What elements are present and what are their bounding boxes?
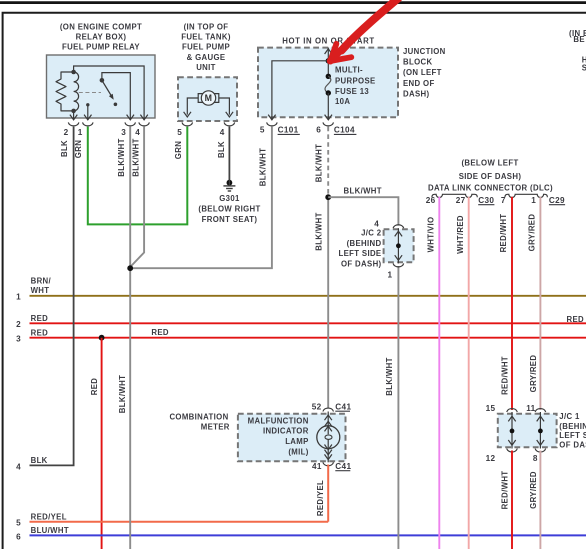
svg-text:(BELOW RIGHT: (BELOW RIGHT <box>198 205 260 214</box>
svg-text:RED/WHT: RED/WHT <box>501 356 510 395</box>
junction dot BLK/WHT branch <box>325 194 331 200</box>
svg-text:C29: C29 <box>549 196 565 205</box>
svg-text:& GAUGE: & GAUGE <box>187 53 226 62</box>
svg-text:GRN: GRN <box>174 141 183 159</box>
fuel pump motor M <box>201 91 215 105</box>
wires below J/C 1 <box>511 451 513 549</box>
svg-text:LEFT SIDE: LEFT SIDE <box>559 431 586 440</box>
wire BLK/WHT from junction block C101 <box>130 127 272 269</box>
svg-text:RED: RED <box>31 314 49 323</box>
node 4 BLK stub <box>30 464 75 466</box>
relay switch <box>100 78 105 83</box>
wire GRN relay pin 1 to fuel pump pin 5 <box>88 127 188 225</box>
svg-text:OF DASH): OF DASH) <box>341 259 382 268</box>
wire GRY/RED from DLC 1 <box>539 197 541 410</box>
fuel pump leads <box>187 98 198 115</box>
wire RED vertical <box>101 338 103 549</box>
node 2 RED bus <box>30 322 586 324</box>
DLC connector bracket pins 26-27 <box>432 194 477 197</box>
fuel pump relay box <box>47 55 156 118</box>
svg-text:COMBINATION: COMBINATION <box>169 413 228 422</box>
combination meter box <box>238 414 346 462</box>
svg-text:8: 8 <box>533 454 538 463</box>
svg-text:GRY/RED: GRY/RED <box>527 214 536 252</box>
svg-text:5: 5 <box>177 128 182 137</box>
svg-text:RED/YEL: RED/YEL <box>31 512 67 521</box>
svg-text:BLK/WHT: BLK/WHT <box>258 148 267 186</box>
svg-text:1: 1 <box>78 128 83 137</box>
svg-text:WHT: WHT <box>31 286 50 295</box>
node 1 BRN/WHT bus <box>30 295 586 297</box>
svg-text:10A: 10A <box>335 97 350 106</box>
svg-text:1: 1 <box>16 293 21 302</box>
junction on RED bus <box>99 335 105 341</box>
branch to C101 <box>272 61 328 120</box>
svg-text:PURPOSE: PURPOSE <box>335 76 376 85</box>
DLC connector bracket pins 7-1 <box>505 194 548 197</box>
svg-text:1: 1 <box>531 196 536 205</box>
svg-text:4: 4 <box>135 128 140 137</box>
svg-text:S: S <box>582 64 586 73</box>
svg-text:15: 15 <box>486 404 496 413</box>
svg-text:2: 2 <box>16 320 21 329</box>
svg-text:(ON LEFT: (ON LEFT <box>403 68 442 77</box>
relay pin 2 lead <box>73 111 75 120</box>
wire BLK from relay pin 2 <box>73 127 75 466</box>
svg-text:C30: C30 <box>478 196 494 205</box>
svg-text:GRY/RED: GRY/RED <box>529 355 538 393</box>
svg-text:RED/WHT: RED/WHT <box>501 471 510 510</box>
svg-text:(IN TOP OF: (IN TOP OF <box>184 23 229 32</box>
node 6 BLU/WHT bus <box>30 534 586 536</box>
wire BLK/WHT from junction block C104 dashed segment <box>327 127 329 198</box>
MIL lamp <box>327 412 329 435</box>
svg-text:4: 4 <box>220 128 225 137</box>
svg-text:RED: RED <box>151 328 169 337</box>
svg-text:BLK: BLK <box>31 456 48 465</box>
svg-text:4: 4 <box>374 220 379 229</box>
svg-text:3: 3 <box>16 335 21 344</box>
svg-text:END OF: END OF <box>403 79 435 88</box>
wire BLK/WHT from relay pin 3 <box>129 127 131 549</box>
svg-text:(BELOW LEFT: (BELOW LEFT <box>461 159 518 168</box>
svg-text:(MIL): (MIL) <box>288 447 308 456</box>
svg-text:27: 27 <box>456 196 466 205</box>
svg-text:BLK/WHT: BLK/WHT <box>385 357 394 395</box>
svg-text:UNIT: UNIT <box>196 63 216 72</box>
J/C 1 box <box>498 414 557 448</box>
wire BLK to G301 <box>228 127 230 180</box>
svg-text:RED: RED <box>90 378 99 396</box>
J/C 2 internals <box>397 228 399 263</box>
wire RED/YEL from MIL 41 <box>327 465 329 522</box>
J/C 1 top cups <box>507 409 518 412</box>
svg-text:4: 4 <box>16 462 21 471</box>
svg-text:FUEL TANK): FUEL TANK) <box>181 33 231 42</box>
svg-text:5: 5 <box>260 126 265 135</box>
svg-text:BLU/WHT: BLU/WHT <box>31 526 69 535</box>
svg-text:C101: C101 <box>278 126 299 135</box>
svg-text:WHT/VIO: WHT/VIO <box>427 217 436 253</box>
MIL pin 52 cup <box>323 408 334 411</box>
fuel pump pin cups <box>182 122 193 125</box>
junction dot fuse feed <box>326 58 331 63</box>
svg-text:C41: C41 <box>335 462 351 471</box>
svg-text:LAMP: LAMP <box>285 437 309 446</box>
svg-text:C104: C104 <box>334 126 355 135</box>
svg-text:BLK/WHT: BLK/WHT <box>344 186 382 195</box>
wire RED/WHT from DLC 7 <box>511 197 513 410</box>
svg-text:DATA LINK CONNECTOR (DLC): DATA LINK CONNECTOR (DLC) <box>428 183 553 192</box>
svg-text:BLK: BLK <box>217 141 226 158</box>
node 3 RED bus <box>30 337 586 339</box>
svg-text:RELAY BOX): RELAY BOX) <box>76 33 127 42</box>
J/C 2 box <box>384 229 414 262</box>
relay coil <box>71 70 76 75</box>
svg-text:M: M <box>205 93 213 103</box>
svg-text:6: 6 <box>316 126 321 135</box>
svg-text:HOT IN ON OR START: HOT IN ON OR START <box>282 36 375 45</box>
svg-text:RED: RED <box>567 315 585 324</box>
svg-text:3: 3 <box>121 128 126 137</box>
relay pin cups <box>68 122 79 125</box>
svg-text:LEFT SIDE: LEFT SIDE <box>338 249 381 258</box>
svg-text:OF DASH): OF DASH) <box>559 441 586 450</box>
svg-text:RED/WHT: RED/WHT <box>499 214 508 253</box>
node 5 RED/YEL bus <box>30 521 329 523</box>
svg-text:11: 11 <box>526 404 535 413</box>
svg-text:26: 26 <box>426 196 436 205</box>
svg-text:GRN: GRN <box>74 140 83 158</box>
svg-text:METER: METER <box>201 423 230 432</box>
junction block box <box>258 48 398 118</box>
svg-text:(ON ENGINE COMPT: (ON ENGINE COMPT <box>60 23 142 32</box>
svg-text:J/C 1: J/C 1 <box>559 412 580 421</box>
svg-text:BLK/WHT: BLK/WHT <box>315 144 324 182</box>
J/C 2 bottom cup <box>393 263 404 266</box>
svg-text:WHT/RED: WHT/RED <box>456 215 465 254</box>
relay coil-to-pin4 link <box>74 66 145 120</box>
J/C 2 top cup <box>393 225 404 228</box>
svg-text:(BEHIND: (BEHIND <box>559 422 586 431</box>
relay pin 1 lead <box>86 103 89 106</box>
red callout arrow <box>342 0 399 51</box>
junction block pin cups <box>267 122 278 125</box>
svg-text:BLK/WHT: BLK/WHT <box>118 375 127 413</box>
svg-text:BLK: BLK <box>60 140 69 157</box>
ground G301 <box>227 180 233 186</box>
svg-text:12: 12 <box>486 454 496 463</box>
svg-text:MALFUNCTION: MALFUNCTION <box>248 416 309 425</box>
wire WHT/RED from DLC 27 <box>468 197 470 549</box>
svg-text:INDICATOR: INDICATOR <box>263 426 309 435</box>
svg-text:FUEL PUMP: FUEL PUMP <box>182 43 230 52</box>
svg-text:BLK/WHT: BLK/WHT <box>117 138 126 176</box>
wire BLK/WHT from relay pin 4 <box>130 127 144 267</box>
wire BLK/WHT branch to J/C 2 <box>328 197 398 225</box>
relay coupling dashes <box>79 92 101 94</box>
svg-text:6: 6 <box>16 533 21 542</box>
svg-text:52: 52 <box>312 403 322 412</box>
svg-text:5: 5 <box>16 519 21 528</box>
junction dot BLK/WHT merge <box>127 265 133 271</box>
relay switch blade <box>102 80 112 96</box>
MIL pin 41 cup <box>323 462 334 465</box>
svg-text:FUEL PUMP RELAY: FUEL PUMP RELAY <box>62 43 140 52</box>
relay resistor <box>56 72 74 111</box>
wire BLK/WHT to MIL <box>327 197 329 408</box>
svg-text:7: 7 <box>501 196 506 205</box>
svg-text:(BEHIND: (BEHIND <box>347 239 382 248</box>
svg-text:G301: G301 <box>219 194 240 203</box>
svg-text:2: 2 <box>64 128 69 137</box>
svg-text:FRONT SEAT): FRONT SEAT) <box>202 215 258 224</box>
svg-text:DASH): DASH) <box>403 89 429 98</box>
svg-text:BLK/WHT: BLK/WHT <box>314 212 323 250</box>
svg-text:1: 1 <box>387 270 392 279</box>
svg-text:MULTI-: MULTI- <box>335 65 363 74</box>
svg-text:BLOCK: BLOCK <box>403 57 432 66</box>
J/C 1 bottom cups <box>507 449 518 452</box>
svg-text:RED/YEL: RED/YEL <box>316 480 325 516</box>
fuel pump unit box <box>178 77 237 121</box>
svg-text:J/C 2: J/C 2 <box>361 229 382 238</box>
svg-text:SIDE OF DASH): SIDE OF DASH) <box>459 172 522 181</box>
wire WHT/VIO from DLC 26 <box>438 197 440 549</box>
wire BLK/WHT below J/C 2 <box>397 266 399 549</box>
fuse 13 <box>327 61 329 74</box>
svg-text:BLK/WHT: BLK/WHT <box>132 138 141 176</box>
svg-text:JUNCTION: JUNCTION <box>403 47 446 56</box>
svg-text:BE: BE <box>573 35 585 44</box>
svg-text:GRY/RED: GRY/RED <box>529 471 538 509</box>
top border line <box>0 1 586 4</box>
svg-text:BRN/: BRN/ <box>31 276 52 285</box>
svg-text:C41: C41 <box>335 403 351 412</box>
svg-text:41: 41 <box>312 462 322 471</box>
svg-text:FUSE 13: FUSE 13 <box>335 87 369 96</box>
fuse feed entry <box>327 48 329 61</box>
J/C 1 internals <box>511 412 513 449</box>
svg-text:RED: RED <box>31 329 49 338</box>
